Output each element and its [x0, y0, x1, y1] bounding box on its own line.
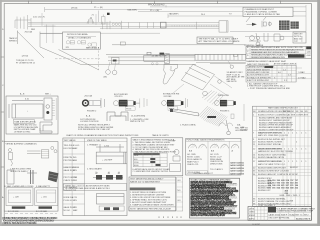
svg-text:8448571 MANUAL TM 9-1005-249: 8448571 MANUAL TM 9-1005-249	[258, 200, 290, 203]
svg-text:GAGE 8448202: GAGE 8448202	[230, 162, 245, 165]
svg-text:8448516 RIVET SPECIAL: 8448516 RIVET SPECIAL	[258, 143, 282, 146]
svg-text:TOL CLASS X: TOL CLASS X	[210, 168, 223, 171]
iso hatched figure center	[199, 106, 228, 126]
svg-text:+ .031: + .031	[41, 197, 48, 199]
handguard ribs	[172, 25, 217, 27]
svg-text:(39.63): (39.63)	[71, 8, 78, 10]
receiver circles	[112, 23, 114, 25]
sub box S2	[35, 188, 58, 209]
svg-text:TYP: TYP	[294, 41, 299, 43]
svg-text:GAGE .250 +.002 LOC AS SHOWN B: GAGE .250 +.002 LOC AS SHOWN BOTH SIDES	[65, 184, 110, 187]
note box B	[197, 37, 240, 44]
pistol grip and trigger guard	[163, 65, 178, 85]
dashed line under K2	[5, 213, 57, 215]
svg-text:.250 DIA: .250 DIA	[84, 95, 92, 98]
rear sight blob	[161, 22, 167, 28]
small rect on top line	[120, 42, 125, 45]
svg-text:VIEW OF THE TABLE: VIEW OF THE TABLE	[87, 139, 107, 142]
arcs column 1	[189, 144, 239, 148]
svg-text:.375/.370: .375/.370	[114, 96, 123, 98]
svg-text:NO: NO	[177, 190, 180, 192]
svg-text:1. PRIMARY: 1. PRIMARY	[87, 144, 99, 147]
svg-text:8448501 RIFLE 5.56MM M16A1: 8448501 RIFLE 5.56MM M16A1 W/E COMPLETE	[258, 114, 309, 117]
rail hatch band	[195, 54, 246, 60]
magazine	[181, 64, 214, 90]
svg-text:.09 HIGH GOTHIC: .09 HIGH GOTHIC	[14, 132, 31, 134]
svg-text:ORD DEPT APPROVAL: ORD DEPT APPROVAL	[268, 217, 290, 220]
svg-text:.312 REF: .312 REF	[163, 96, 172, 98]
svg-text:DETAIL C TOLERANCES: DETAIL C TOLERANCES	[68, 37, 91, 40]
sub box with dark blob (forward assist area)	[112, 58, 120, 65]
svg-text:2. SECONDARY: 2. SECONDARY	[87, 168, 103, 171]
svg-text:ATT TRACTED ETC ART SPELL LTD: ATT TRACTED ETC ART SPELL LTD WASTE	[199, 40, 241, 43]
leader diagonals to figure row	[172, 76, 232, 96]
svg-text:2.00 1.50 .75: 2.00 1.50 .75	[33, 16, 46, 18]
svg-text:TAB (REF): TAB (REF)	[127, 8, 137, 11]
zone letters left margin	[2, 29, 4, 199]
svg-text:NOTE: TARGETING PER SPEC MIL-R: NOTE: TARGETING PER SPEC MIL-R-45587	[130, 208, 172, 211]
svg-text:5.56MM M16A1 FINAL ASSEMBLY IN: 5.56MM M16A1 FINAL ASSEMBLY INSP	[277, 210, 314, 213]
svg-text:HARDEN RC 38-42 PROTECT FINISH: HARDEN RC 38-42 PROTECT FINISH	[258, 150, 293, 153]
vertical dim pair near front sight	[95, 14, 97, 25]
svg-text:CHART OF FIRING CLEARANCES MA: CHART OF FIRING CLEARANCES MALFUNCTION T…	[66, 134, 139, 137]
svg-text:8448560 DATA LIST COMPLETE S: 8448560 DATA LIST COMPLETE SP SP SP	[258, 173, 299, 176]
buffer rectangle figure	[9, 98, 52, 120]
gas port pressure table	[246, 60, 312, 90]
svg-text:MIN: MIN	[73, 170, 77, 172]
svg-text:O. AND BOLT CATCH SPRING 2X TA: O. AND BOLT CATCH SPRING 2X TAB	[245, 13, 281, 16]
svg-text:M3: M3	[296, 111, 299, 113]
svg-text:TEST VALUE: TEST VALUE	[64, 139, 77, 142]
svg-text:1. FLACK LINE A: 1. FLACK LINE A	[180, 123, 196, 126]
svg-text:DIRECTIONS: DIRECTIONS	[210, 164, 223, 166]
pivot pin circles	[106, 70, 111, 75]
front sight detail on barrel	[87, 15, 105, 25]
svg-text:8.2 OZ MIN: 8.2 OZ MIN	[8, 211, 19, 213]
svg-text:8448512 FRONT SIGHT POST SEE: 8448512 FRONT SIGHT POST SEE NOTE 4	[258, 132, 283, 134]
F3	[162, 101, 167, 106]
svg-text:CRITICAL TECHNOLOGY 7 FEB 1964: CRITICAL TECHNOLOGY 7 FEB 1964	[2, 221, 37, 225]
svg-text:SPRING: SPRING	[9, 40, 17, 42]
lower figure with small dark rects	[93, 172, 123, 178]
svg-text:MAX: MAX	[73, 209, 78, 212]
svg-text:RDS: RDS	[134, 155, 139, 157]
muzzle detail cluster	[27, 15, 29, 30]
small figure right	[170, 150, 181, 172]
magazine-well joint verticals	[102, 22, 104, 29]
svg-text:8.2 OZ MAX: 8.2 OZ MAX	[36, 210, 48, 213]
svg-text:VIEW AT A (FIRING CLEARANCE): VIEW AT A (FIRING CLEARANCE)	[6, 142, 37, 145]
bottom figure	[97, 194, 125, 205]
svg-text:MATL POLYMER TYPE II CL 1: MATL POLYMER TYPE II CL 1	[258, 163, 286, 166]
vertical dims right of muzzle (lower view)	[44, 25, 56, 44]
svg-text:TEST TARGETING AND ACCURACY: TEST TARGETING AND ACCURACY	[130, 178, 164, 181]
svg-text:A - A: A - A	[86, 115, 91, 118]
dark cage cell	[268, 207, 276, 213]
figure cluster right of butt	[246, 17, 271, 46]
text cells	[187, 171, 207, 174]
svg-text:PROCESSING: PROCESSING	[148, 4, 165, 7]
svg-text:P1 - + (B): P1 - + (B)	[94, 7, 103, 9]
svg-text:1.9 MAX: 1.9 MAX	[298, 76, 306, 79]
sub box S1	[6, 188, 33, 209]
svg-text:FT LB SEE NOTE 12: FT LB SEE NOTE 12	[16, 63, 36, 65]
svg-text:FIG 2: FIG 2	[300, 37, 302, 43]
svg-text:GAGE 8448203: GAGE 8448203	[230, 164, 245, 167]
svg-text:7. LUBRICATE PER LSA SPEC NOTE: 7. LUBRICATE PER LSA SPEC NOTED	[132, 170, 168, 173]
svg-text:M2: M2	[291, 111, 294, 113]
svg-text:4X SEE NOTE 8: 4X SEE NOTE 8	[152, 56, 168, 58]
svg-text:CHAMBER ALIGNMENT GAGE MUST SE: CHAMBER ALIGNMENT GAGE MUST SEAT	[246, 60, 287, 63]
svg-text:PT REF: PT REF	[169, 141, 177, 143]
balloon circles right of magazine	[230, 65, 233, 68]
light callout patches within notes	[224, 184, 239, 210]
svg-text:FIRING PIN: FIRING PIN	[218, 95, 229, 97]
svg-text:FIGURE 2: FIGURE 2	[87, 111, 97, 113]
svg-text:OF RECEIVER RAIL SEE DETAIL B: OF RECEIVER RAIL SEE DETAIL B AND NOTE 6	[65, 187, 111, 190]
scan edge bands	[0, 0, 320, 2]
svg-text:ENGR: ENGR	[249, 215, 255, 217]
svg-text:DFTS: DFTS	[249, 208, 255, 210]
svg-text:+ PORT PRESSURE TAKEN AT MUZZL: + PORT PRESSURE TAKEN AT MUZZLE END	[248, 87, 291, 90]
svg-text:NOTES IN THIS AREA: NOTES IN THIS AREA	[67, 33, 88, 36]
svg-text:TAB (REF): TAB (REF)	[169, 12, 179, 15]
note text E near magazine	[227, 71, 246, 83]
callout box A	[63, 32, 101, 50]
svg-text:SIZE F: SIZE F	[281, 214, 288, 216]
svg-text:STAB IDENTIFICATION: STAB IDENTIFICATION	[14, 120, 36, 123]
bottom-left dark stamp	[2, 216, 57, 225]
svg-text:8448525 MAGAZINE CATCH: 8448525 MAGAZINE CATCH	[258, 156, 285, 159]
figures row y33-44 right	[249, 33, 284, 41]
F1	[83, 100, 89, 106]
muzzle vertical	[39, 32, 41, 48]
svg-text:BUFFER ASSY DIM REF: BUFFER ASSY DIM REF	[247, 71, 270, 74]
rail bump	[233, 54, 237, 56]
svg-text:SEE +: SEE +	[45, 93, 52, 95]
svg-text:6. STAMP ACCEPTANCE MARK ON RE: 6. STAMP ACCEPTANCE MARK ON RECEIVER	[130, 203, 174, 206]
note box C top right	[243, 7, 293, 16]
dashed centerline	[55, 58, 100, 60]
narrow side column right of M2	[177, 177, 183, 211]
svg-text:A - B: A - B	[20, 93, 25, 96]
dark wedge	[48, 171, 59, 182]
svg-text:MAX: MAX	[73, 147, 78, 150]
butt plate	[219, 21, 228, 32]
small figures inside	[9, 147, 58, 167]
svg-text:FIG 3: FIG 3	[126, 109, 132, 111]
svg-text:PER NOTE TYP: PER NOTE TYP	[130, 121, 145, 123]
svg-text:8448533 TAKEDOWN PIN SET: 8448533 TAKEDOWN PIN SET	[258, 167, 287, 170]
svg-text:1.4646: 1.4646	[73, 167, 80, 169]
break diagonals	[40, 47, 81, 64]
svg-text:FIGURE 5: FIGURE 5	[220, 111, 230, 113]
svg-text:8448512: 8448512	[290, 167, 299, 169]
svg-text:APPD: APPD	[249, 217, 255, 220]
svg-text:+ .250 REF: + .250 REF	[102, 160, 113, 162]
dark cells right column	[230, 162, 245, 176]
svg-text:8448541 SCREW SELF LOCKING: 8448541 SCREW SELF LOCKING	[258, 171, 289, 173]
svg-text:8448566 LIST: 8448566 LIST	[258, 190, 271, 192]
sub table	[134, 153, 168, 167]
STAB box	[13, 120, 34, 124]
svg-text:NO GO: NO GO	[64, 210, 71, 212]
svg-text:SEE NOTE: SEE NOTE	[227, 81, 238, 83]
svg-text:-1308: -1308	[288, 200, 294, 202]
svg-text:NOMENCLATURE OR DESCRIPTION: NOMENCLATURE OR DESCRIPTION	[258, 110, 291, 113]
svg-text:EXTRACTOR SPRING FR: EXTRACTOR SPRING FR	[247, 76, 271, 79]
svg-text:IND: IND	[73, 157, 77, 159]
svg-text:CHECK 4 PL: CHECK 4 PL	[187, 164, 200, 166]
svg-text:MIN: MIN	[73, 200, 77, 202]
vertical pin figure	[31, 170, 34, 184]
svg-text:P1 + c (B): P1 + c (B)	[150, 10, 159, 12]
zone tick marks top	[1, 1, 281, 167]
svg-text:WT 7.5: WT 7.5	[296, 214, 303, 216]
svg-text:+ .028: + .028	[13, 197, 20, 199]
svg-text:GO: GO	[177, 200, 181, 202]
svg-text:16. FINAL ACCEPTANCE PER INSP: 16. FINAL ACCEPTANCE PER INSP EQUIP LIST	[190, 214, 226, 217]
svg-text:8448521 TRIGGER ASSY W/ SPRI: 8448521 TRIGGER ASSY W/ SPRING SEE FIG 3	[258, 147, 283, 150]
svg-text:PLUG GO: PLUG GO	[64, 200, 74, 202]
svg-text:.250 PIN X .375 SLOT: .250 PIN X .375 SLOT	[193, 173, 214, 175]
note box D	[293, 32, 306, 43]
svg-text:CAGE 19204: CAGE 19204	[268, 213, 281, 216]
svg-text:8448530 BUTTSTOCK ASSY W/ PL: 8448530 BUTTSTOCK ASSY W/ PLATE	[258, 160, 283, 163]
svg-text:A - A (SHOWN): A - A (SHOWN)	[131, 115, 145, 118]
dark diamond marker	[107, 13, 110, 15]
svg-text:(29.92): (29.92)	[22, 56, 29, 58]
svg-text:M5: M5	[305, 111, 308, 113]
svg-text:RIFLE BUFFER WEIGHT: RIFLE BUFFER WEIGHT	[247, 69, 271, 71]
svg-text:ACTION SPRING LGTH: ACTION SPRING LGTH	[247, 74, 269, 77]
outer break edge	[16, 31, 18, 45]
small arcs right of iso figure	[219, 123, 233, 126]
buffer tube lower lines	[178, 61, 246, 64]
bottom tick marks	[159, 216, 181, 218]
svg-text:8448507 LOWER RECEIVER GROUP: 8448507 LOWER RECEIVER GROUP	[259, 129, 294, 131]
svg-text:EJECTOR SPRING FRC: EJECTOR SPRING FRC	[247, 80, 270, 82]
svg-text:GAGE 8448206: GAGE 8448206	[230, 172, 245, 175]
svg-text:.5 MAX: .5 MAX	[298, 71, 305, 74]
step section figure	[107, 112, 128, 121]
svg-text:REVISED PER DRAWING CHANGE NOT: REVISED PER DRAWING CHANGE NOTICE	[251, 56, 286, 59]
svg-text:NOTE 9: NOTE 9	[241, 129, 249, 131]
F4 with section hatching	[202, 91, 224, 106]
svg-text:MATL STL CRES PER QQ-S-763: MATL STL CRES PER QQ-S-763	[258, 134, 289, 137]
receiver box	[144, 52, 246, 63]
svg-text:SEE DETAIL B: SEE DETAIL B	[86, 47, 100, 50]
svg-text:FIRE PIN: FIRE PIN	[64, 157, 73, 159]
svg-text:RANGE 100 YD MACHINE REST: RANGE 100 YD MACHINE REST	[130, 181, 161, 184]
F2 knurled buffer	[114, 101, 119, 106]
svg-text:GAGE 8448204: GAGE 8448204	[230, 167, 245, 170]
body lines	[81, 63, 197, 65]
svg-text:TABLE OF LIMITS: TABLE OF LIMITS	[152, 134, 169, 137]
svg-text:1.250: 1.250	[104, 145, 110, 147]
svg-text:M4: M4	[300, 111, 303, 113]
svg-text:GAGE 8448205: GAGE 8448205	[230, 170, 245, 173]
svg-text:8448501 REV E: 8448501 REV E	[296, 219, 311, 221]
extra vertical dim at x42	[41, 13, 43, 26]
svg-text:CHKD: CHKD	[249, 212, 255, 214]
svg-text:PARTS AND INSPECTION LIST: PARTS AND INSPECTION LIST	[268, 107, 299, 110]
svg-text:5.5-8.5: 5.5-8.5	[73, 145, 80, 147]
approval grid left	[248, 207, 268, 221]
angle figures right	[40, 122, 52, 133]
top dimension line P1	[40, 5, 306, 37]
svg-text:E-10247: E-10247	[253, 224, 261, 226]
full width note band	[64, 184, 127, 191]
svg-text:FOR REFERENCE ONLY SEE LIST: FOR REFERENCE ONLY SEE LIST	[78, 129, 111, 131]
top weapon profile (full view, muzzle left)	[15, 15, 219, 30]
rail tick marks	[198, 54, 242, 61]
svg-text:SEE NOTE 3 AND 7: SEE NOTE 3 AND 7	[10, 170, 29, 173]
hatched dark blocks top right	[279, 21, 299, 30]
svg-text:8448 - 1308 + 1508 - 1: 8448 - 1308 + 1508 - 1	[280, 195, 301, 197]
leader vertical and small balloon box near F4	[243, 104, 245, 121]
svg-text:LOCKED POSITION: LOCKED POSITION	[80, 121, 99, 123]
svg-text:GO: GO	[177, 180, 181, 182]
hammer part vertical hatched	[165, 54, 170, 64]
